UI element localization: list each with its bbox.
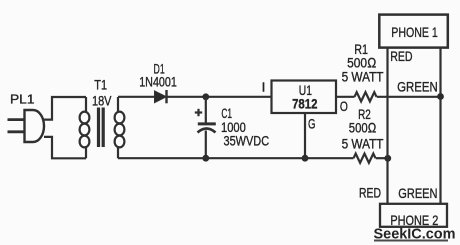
wire R2 to RED line (376, 157, 388, 159)
capacitor C1 (198, 97, 216, 158)
wire RED lead phone1 to phone2 (386, 48, 388, 204)
wire U1 ground pin (304, 113, 306, 158)
node junction R2/RED (384, 155, 391, 162)
svg-text:PL1: PL1 (10, 93, 35, 107)
svg-text:G: G (308, 115, 316, 131)
regulator U1 box (272, 81, 337, 114)
phone jack PHONE 1 box (379, 15, 448, 48)
transformer core (99, 108, 104, 148)
plug PL1 (8, 110, 45, 142)
svg-text:5 WATT: 5 WATT (342, 68, 384, 84)
svg-text:5 WATT: 5 WATT (342, 136, 384, 152)
wire plug upper lead to primary top (44, 97, 87, 120)
svg-text:1N4001: 1N4001 (139, 74, 177, 90)
svg-text:RED: RED (390, 48, 412, 64)
svg-text:7812: 7812 (292, 96, 317, 112)
wire diode to U1 input (167, 96, 272, 98)
svg-text:500Ω: 500Ω (349, 120, 377, 136)
svg-text:18V: 18V (92, 93, 112, 109)
resistor R2 (354, 154, 376, 163)
resistor R1 (355, 92, 377, 101)
svg-text:RED: RED (359, 185, 381, 201)
wire bottom rail (118, 157, 354, 159)
svg-text:35WVDC: 35WVDC (224, 133, 270, 149)
wire secondary top to diode (118, 96, 155, 98)
svg-text:PHONE 1: PHONE 1 (391, 24, 438, 40)
node junction R1/GREEN (437, 93, 444, 100)
node junction U1 ground (302, 155, 309, 162)
wire R1 to GREEN line (377, 96, 441, 98)
transformer T1 secondary coil (115, 97, 125, 158)
transformer T1 primary coil (80, 97, 90, 158)
node junction diode/C1 (202, 93, 209, 100)
watermark SeekIC.com (374, 226, 456, 243)
diode D1 (155, 90, 167, 103)
wire GREEN lead phone1 to phone2 (439, 48, 441, 204)
phone jack PHONE 2 box (380, 204, 447, 227)
svg-text:GREEN: GREEN (397, 79, 438, 95)
wire U1 output (336, 96, 355, 98)
C1 polarity plus sign (195, 109, 202, 116)
svg-text:O: O (340, 98, 348, 114)
svg-text:I: I (262, 81, 265, 95)
svg-text:T1: T1 (94, 76, 107, 92)
svg-text:GREEN: GREEN (398, 185, 437, 201)
node junction C1 bottom (202, 155, 209, 162)
wire plug lower lead to primary bottom (44, 137, 86, 158)
